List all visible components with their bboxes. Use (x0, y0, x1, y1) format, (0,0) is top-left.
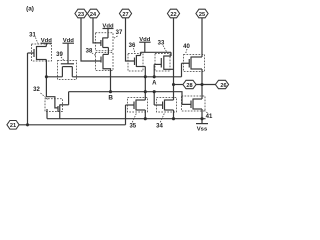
node dot 40-41 on 28 line (200, 83, 203, 86)
dashed box 32 (45, 99, 63, 112)
svg-text:24: 24 (90, 12, 97, 18)
svg-text:(a): (a) (26, 6, 34, 13)
wire 36 source down through A to B (144, 67, 146, 92)
dashed box 34 (157, 98, 177, 113)
label 39 (56, 52, 64, 61)
transistor 35 (126, 100, 146, 111)
dashed box 41 (182, 96, 206, 111)
wire 35 drain up to node B (144, 92, 146, 100)
wire 23 down to gate of 38 (81, 18, 101, 62)
svg-text:Vss: Vss (197, 127, 208, 133)
wire 34 gate up to node B (153, 92, 155, 105)
node B dot 35 drain (144, 90, 147, 93)
transistor 38 (101, 54, 108, 63)
ground Vss symbol (196, 119, 208, 133)
wire 31 drain down (45, 60, 47, 77)
terminal 26 (215, 80, 228, 89)
dashed box 38 (96, 53, 114, 71)
wire 35 source down to Vss line (144, 110, 146, 119)
svg-text:33: 33 (158, 41, 165, 47)
svg-text:23: 23 (78, 12, 84, 18)
power Vdd4 (139, 37, 151, 52)
dashed box 36 (128, 54, 143, 72)
terminal 28 (183, 80, 196, 89)
dashed box 39 (58, 61, 77, 80)
wire 36 drain up to Vdd rail (140, 52, 142, 55)
svg-text:27: 27 (122, 12, 128, 18)
wire 25 down to drain of 40 (201, 18, 203, 58)
wire 40 source down to 28-26 line (201, 69, 203, 85)
label 32 (33, 87, 48, 100)
transistor 36 (135, 55, 146, 67)
svg-text:21: 21 (10, 123, 16, 129)
label 33 (158, 41, 167, 53)
dashed box 33 (155, 54, 170, 72)
svg-text:32: 32 (33, 87, 40, 93)
svg-text:36: 36 (129, 43, 136, 49)
wire 40 gate down to node A line (181, 63, 183, 77)
transistor 33 (154, 56, 173, 70)
transistor 34 (154, 100, 173, 111)
wire 28-26 output line (174, 84, 184, 86)
svg-text:25: 25 (199, 12, 205, 18)
power Vdd2 (63, 38, 75, 44)
dashed box 37 (96, 33, 114, 51)
label 36 (129, 43, 136, 53)
wire 32 drain up to node B line (68, 92, 70, 105)
label 38 (86, 49, 96, 56)
wire Vss rail left hook (46, 109, 48, 119)
terminal 22 (167, 9, 179, 18)
node dot 21 line (26, 123, 29, 126)
wire 41 source down to Vss line (201, 109, 203, 119)
node B dot 34 gate (153, 90, 156, 93)
node dot 34 source on Vss (172, 117, 175, 120)
dashed box 40 (184, 55, 205, 72)
svg-text:28: 28 (186, 83, 192, 89)
wire 38 source down to node B (103, 64, 111, 92)
terminal 27 (119, 9, 131, 18)
svg-text:A: A (152, 80, 157, 86)
wire 41 drain up to 28-26 line (201, 85, 203, 100)
svg-text:26: 26 (220, 83, 226, 89)
label 37 (114, 30, 123, 39)
transistor 37 (101, 38, 109, 48)
junction dots (26, 75, 204, 126)
node 31 drain dot (45, 75, 48, 78)
wire 32 source down to Vss line (59, 113, 61, 119)
transistor 32 (58, 105, 69, 113)
dashed box 31 (32, 44, 52, 61)
wire node B line (69, 92, 191, 105)
node dot 41 source on Vss (200, 117, 203, 120)
wire 22 down to node 28-line (173, 18, 175, 85)
wire node A line (46, 76, 62, 78)
svg-text:35: 35 (129, 124, 136, 130)
transistor 40 (182, 57, 203, 70)
wire staircase 31 drain to 32 gate (46, 77, 58, 108)
wire 33 drain up (170, 52, 172, 56)
node dot 34 drain on 28 line (172, 83, 175, 86)
transistor 31 (28, 46, 47, 60)
wire 34 drain up to 28 line (173, 85, 175, 101)
wire 21 up to 31 gate (27, 53, 29, 125)
label 40 (183, 44, 190, 54)
terminal 23 (75, 9, 87, 18)
label 41 (205, 111, 213, 121)
wire 24 down to gate of 37 (93, 18, 101, 43)
node dot 36 source on A line (144, 75, 147, 78)
svg-text:41: 41 (206, 114, 213, 120)
svg-text:39: 39 (56, 52, 63, 58)
power Vdd1 (41, 38, 53, 47)
wire Vss rail (47, 118, 206, 120)
terminal 21 (7, 121, 19, 130)
label 34 (156, 114, 164, 130)
dashed box 35 (128, 98, 148, 113)
wire 27 down to gate of 36 (126, 18, 135, 62)
svg-text:B: B (108, 94, 113, 101)
node dot 35 source on Vss (144, 117, 147, 120)
power Vdd3 (102, 23, 114, 38)
terminal 25 (196, 9, 208, 18)
wire Vdd rail to 33 drain (141, 51, 172, 53)
transistor 39 (gate tied to Vdd2) (61, 43, 74, 77)
svg-text:38: 38 (86, 49, 93, 55)
label 31 (29, 33, 38, 44)
svg-text:22: 22 (170, 12, 176, 18)
wire 35 gate down to 21 line (125, 105, 127, 125)
wire 37 source to 38 drain (107, 48, 109, 55)
wire 34 source down to Vss line (173, 110, 175, 119)
terminal 24 (87, 9, 99, 18)
wire 33 gate down to node A (153, 64, 155, 76)
label 35 (129, 114, 136, 130)
node B dot 38 (109, 90, 112, 93)
svg-text:34: 34 (156, 124, 163, 130)
node A dot (153, 75, 156, 78)
transistor 41 (191, 99, 202, 110)
wire 21 input line (19, 124, 126, 126)
svg-text:37: 37 (116, 30, 123, 36)
